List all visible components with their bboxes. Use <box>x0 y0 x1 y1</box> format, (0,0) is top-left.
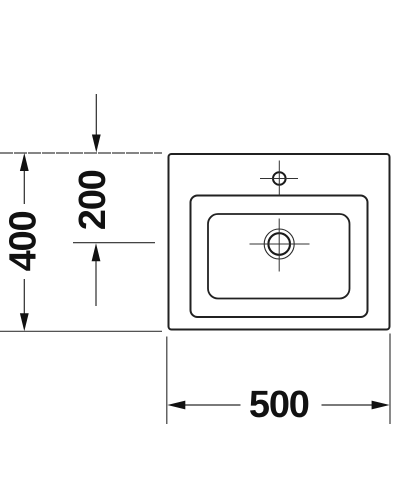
top extension line <box>0 152 162 154</box>
dim 200 arrow up <box>92 243 101 261</box>
drain outer circle <box>264 229 294 259</box>
dim 400 line lower segment <box>23 279 25 315</box>
dim 200 arrow down <box>92 135 101 153</box>
dim 500 right extension line <box>389 334 391 425</box>
dim 500 line right segment <box>322 404 373 406</box>
drain inner circle <box>268 233 290 255</box>
dim 500 arrow right <box>372 401 390 410</box>
bottom extension line <box>0 330 162 332</box>
dim 400 line upper segment <box>23 170 25 204</box>
dim 500 arrow left <box>167 401 185 410</box>
svg-text:400: 400 <box>3 212 45 272</box>
basin bowl rect <box>208 214 350 299</box>
washbasin deck inner rect <box>191 196 368 318</box>
dim 500 line left segment <box>185 404 241 406</box>
drain crosshair horizontal <box>250 243 310 245</box>
dim 200 lower reference line <box>73 242 155 244</box>
dim 400 arrow down <box>20 313 29 331</box>
dim 400 arrow up <box>20 153 29 171</box>
svg-text:500: 500 <box>249 384 309 426</box>
dim 200 upper arrow tail <box>95 94 97 136</box>
faucet hole crosshair vertical <box>278 161 280 196</box>
washbasin outer rim rect <box>169 154 390 330</box>
faucet hole crosshair horizontal <box>260 178 298 180</box>
faucet hole circle <box>273 172 286 185</box>
drain crosshair vertical <box>278 219 280 272</box>
svg-text:200: 200 <box>72 170 114 230</box>
dim 500 left extension line <box>166 337 168 425</box>
dim 200 lower arrow tail <box>95 261 97 306</box>
